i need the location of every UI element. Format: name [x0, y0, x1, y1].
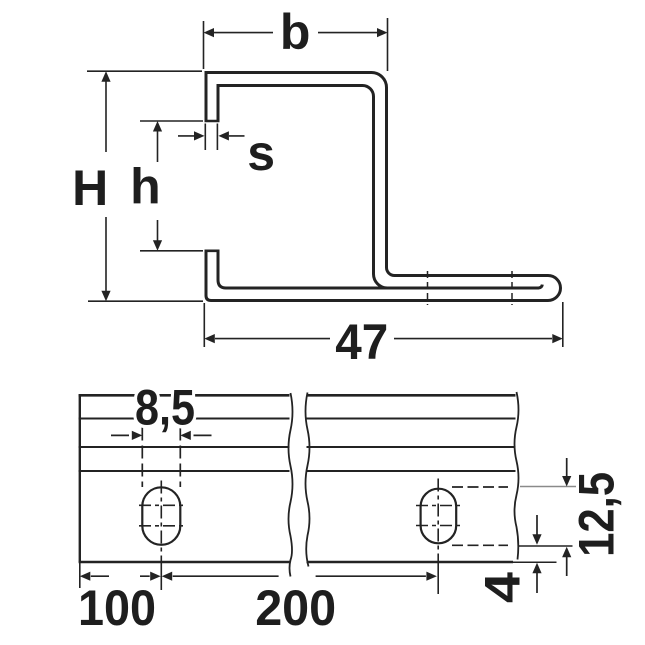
svg-text:12,5: 12,5 [569, 472, 625, 557]
svg-text:h: h [130, 159, 161, 215]
svg-text:H: H [72, 160, 108, 216]
svg-text:s: s [247, 125, 275, 181]
svg-text:4: 4 [475, 572, 531, 603]
svg-text:47: 47 [335, 314, 388, 370]
svg-text:b: b [280, 4, 311, 60]
svg-text:200: 200 [255, 580, 336, 636]
svg-text:100: 100 [78, 580, 156, 636]
svg-text:8,5: 8,5 [135, 379, 195, 435]
